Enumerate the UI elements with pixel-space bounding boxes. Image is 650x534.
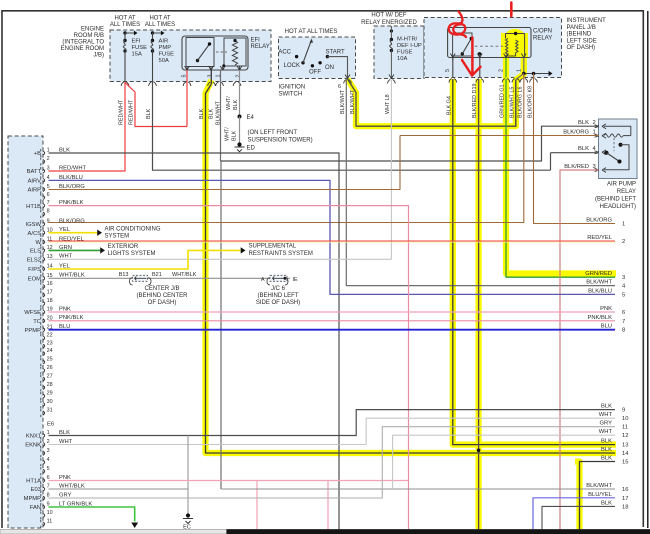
svg-text:YEL: YEL (59, 227, 71, 233)
svg-text:WHT: WHT (59, 439, 73, 445)
svg-text:11: 11 (47, 519, 53, 525)
svg-text:BLU/YEL: BLU/YEL (588, 492, 613, 498)
wire GRN/RED G1 down to terminal 3 (506, 79, 615, 277)
svg-text:ED: ED (247, 146, 256, 152)
arrow supplemental restraints (241, 247, 246, 253)
svg-text:30: 30 (47, 399, 53, 405)
engine room J/B box (110, 30, 271, 82)
svg-text:FUSE: FUSE (132, 45, 148, 51)
svg-text:SUPPLEMENTAL: SUPPLEMENTAL (249, 244, 297, 250)
wire HT1A PNK row (49, 480, 409, 482)
svg-text:C/OPN: C/OPN (533, 29, 552, 35)
svg-text:WHT/BLK: WHT/BLK (59, 483, 85, 489)
svg-text:GRN/RED G1: GRN/RED G1 (500, 84, 506, 118)
svg-text:7: 7 (47, 484, 50, 490)
M-HTR fuse box (374, 26, 424, 79)
wire RED/WHT to BATT (49, 82, 126, 171)
svg-text:IGSW: IGSW (26, 222, 42, 228)
svg-text:18: 18 (47, 298, 53, 304)
wire BLK/WHT ignition gray down (346, 79, 615, 286)
svg-text:BLK/ORG: BLK/ORG (59, 218, 85, 224)
wire BLK/ORG L6 down to IGSW row (49, 80, 524, 223)
wire BLK G4 down to terminal 13 (453, 79, 615, 445)
svg-text:12: 12 (622, 433, 628, 439)
svg-text:BLK/WHT: BLK/WHT (350, 89, 356, 114)
svg-text:BLK: BLK (231, 130, 237, 141)
svg-text:8: 8 (47, 493, 50, 499)
ECM connector pins with numbers and labels (43, 151, 45, 155)
svg-text:6: 6 (47, 475, 50, 481)
svg-text:BLK/WHT L5: BLK/WHT L5 (509, 87, 515, 118)
wire FAN LT GRN/BLK (49, 507, 135, 522)
svg-text:3: 3 (208, 75, 214, 78)
wire HT1A stub down 1 (256, 481, 258, 531)
fuse EFI 15A (123, 39, 126, 42)
C/OPN actuator dashed (475, 45, 503, 47)
svg-text:11: 11 (47, 237, 53, 243)
svg-text:ALL TIMES: ALL TIMES (110, 22, 140, 28)
svg-text:B21: B21 (152, 272, 162, 278)
wire A/CS YEL stub (49, 232, 98, 234)
svg-text:26: 26 (47, 365, 53, 371)
svg-text:10A: 10A (397, 56, 407, 62)
svg-text:RELAY: RELAY (251, 44, 270, 50)
svg-text:AIR PUMP: AIR PUMP (607, 182, 636, 188)
svg-text:WHT/BLK: WHT/BLK (172, 272, 197, 278)
EFI relay coil cell (224, 38, 246, 66)
wire F/PS YEL to SRS (49, 250, 241, 269)
EFI relay switch cell (186, 38, 214, 67)
svg-text:5: 5 (445, 69, 451, 72)
svg-text:KNX1: KNX1 (26, 434, 41, 440)
svg-text:AIRP: AIRP (27, 188, 41, 194)
svg-text:ACC: ACC (278, 50, 291, 56)
svg-text:OF DASH): OF DASH) (567, 45, 596, 51)
svg-text:6: 6 (338, 84, 341, 90)
svg-text:E4: E4 (247, 115, 255, 121)
wire M-HTR fuse bottom (390, 51, 392, 79)
svg-text:28: 28 (47, 382, 53, 388)
svg-text:31: 31 (47, 408, 53, 414)
svg-text:EXTERIOR: EXTERIOR (108, 244, 139, 250)
svg-text:2: 2 (236, 75, 242, 78)
wire W RED/YEL row (49, 241, 616, 243)
engine J/B bottom bumps (121, 82, 129, 86)
svg-text:GRY: GRY (59, 492, 72, 498)
svg-text:GRY: GRY (600, 421, 613, 427)
svg-text:PPMP: PPMP (25, 328, 42, 334)
svg-text:AIR: AIR (159, 39, 169, 45)
svg-text:BLK: BLK (578, 146, 589, 152)
svg-text:2: 2 (47, 439, 50, 445)
wire KNX1 ground branch (187, 436, 189, 515)
svg-text:1: 1 (622, 222, 625, 228)
wire BLK terminal 18 (542, 506, 615, 530)
air pump relay coil (604, 126, 631, 135)
svg-text:BLK: BLK (578, 120, 589, 126)
highlight: ignition START BLK/WHT to C/OPN coil to GRN/RED terminal 3 (348, 45, 524, 126)
svg-text:HOT W/ DEF: HOT W/ DEF (371, 13, 407, 19)
svg-text:24: 24 (47, 348, 53, 354)
svg-text:TC: TC (33, 319, 41, 325)
svg-text:SIDE OF DASH): SIDE OF DASH) (256, 300, 300, 306)
svg-text:16: 16 (47, 281, 53, 287)
wire WHT terminal 12 riser (393, 435, 615, 489)
svg-text:LT GRN/BLK: LT GRN/BLK (59, 501, 92, 507)
svg-text:EKNK: EKNK (25, 443, 41, 449)
svg-text:BLK/BLU: BLK/BLU (588, 288, 612, 294)
highlight: BLK/RED D19 down to bottom (476, 79, 482, 530)
svg-text:SWITCH: SWITCH (279, 92, 303, 98)
M-HTR pin arrow (389, 75, 394, 79)
svg-text:E03: E03 (31, 487, 41, 493)
svg-text:OFF: OFF (309, 70, 321, 76)
svg-text:B13: B13 (119, 272, 129, 278)
wire ELS2 WHT row (49, 258, 392, 260)
svg-text:WFSE: WFSE (24, 310, 41, 316)
wire +B BLK row (49, 153, 340, 530)
C/OPN relay box (448, 28, 531, 58)
svg-text:E6: E6 (47, 422, 54, 428)
svg-text:BLK: BLK (233, 99, 239, 110)
svg-text:3: 3 (622, 275, 625, 281)
svg-text:ELS2: ELS2 (27, 258, 41, 264)
svg-text:A/CS: A/CS (27, 231, 41, 237)
svg-text:8: 8 (47, 209, 50, 215)
svg-text:7: 7 (47, 200, 50, 206)
svg-text:SYSTEM: SYSTEM (105, 234, 130, 240)
svg-text:LEFT SIDE: LEFT SIDE (567, 38, 597, 44)
C/OPN relay switch cell (453, 33, 472, 56)
svg-text:10: 10 (47, 510, 53, 516)
wire WFSE PNK row (49, 311, 616, 313)
svg-text:RELAY: RELAY (617, 189, 636, 195)
svg-text:ON: ON (325, 65, 334, 71)
svg-text:2: 2 (47, 156, 50, 162)
wire MPMP GRY row to terminal 11 (49, 427, 616, 498)
svg-text:BLK/RED D19: BLK/RED D19 (472, 84, 478, 118)
svg-text:RESTRAINTS SYSTEM: RESTRAINTS SYSTEM (249, 251, 313, 257)
svg-text:18: 18 (622, 504, 628, 510)
fuse AIR PMP 50A (151, 39, 154, 42)
wire BLK/WHT L5 down to ignition row (515, 80, 517, 127)
wire BLK/WHT row to air pump relay (221, 126, 599, 161)
svg-text:LOCK: LOCK (284, 63, 300, 69)
svg-text:9: 9 (47, 219, 50, 225)
svg-text:BLK: BLK (199, 108, 205, 119)
svg-text:6: 6 (622, 310, 625, 316)
svg-text:BLK: BLK (601, 447, 612, 453)
EFI fuse feed dot+arrow (123, 31, 126, 34)
svg-text:29: 29 (47, 391, 53, 397)
svg-text:F/PS: F/PS (28, 267, 41, 273)
svg-text:+B: +B (34, 151, 41, 157)
svg-text:10: 10 (47, 227, 53, 233)
svg-text:J/C 6: J/C 6 (271, 286, 286, 292)
svg-text:IE: IE (293, 277, 299, 283)
C/OPN pin arrows (450, 54, 455, 58)
wire WHT/BLK relay pin2 to E4 (239, 70, 241, 117)
svg-text:BLK: BLK (59, 430, 70, 436)
svg-text:RED/YEL: RED/YEL (587, 235, 613, 241)
svg-text:M-HTR/: M-HTR/ (397, 37, 418, 43)
svg-text:MPMP: MPMP (24, 496, 42, 502)
wire L5 jog (516, 74, 524, 80)
svg-text:PMP: PMP (159, 45, 172, 51)
svg-text:BLK: BLK (209, 108, 215, 119)
wire BLU/YEL terminal 17 (533, 498, 615, 530)
C/OPN relay pin D19 contact (478, 52, 481, 55)
wire C/OPN pin D19 to J/B edge (479, 58, 481, 78)
junction D19 x row14 (477, 449, 481, 453)
svg-text:15A: 15A (132, 52, 142, 58)
svg-text:YEL: YEL (59, 263, 71, 269)
highlight: EFI relay pin3 BLK down + row to terminal 14 (206, 80, 617, 453)
svg-text:FUSE: FUSE (159, 52, 175, 58)
wire ELS GRN stub (49, 249, 101, 251)
svg-text:ENGINE: ENGINE (81, 27, 104, 33)
fuse M-HTR DEF I-UP 10A (390, 38, 393, 41)
svg-text:OF DASH): OF DASH) (148, 300, 177, 306)
M-HTR fuse feed dots (390, 29, 393, 32)
arrow air conditioning (97, 230, 102, 236)
wire BLK/RED air relay pin3 down (560, 170, 599, 530)
svg-text:14: 14 (622, 451, 629, 457)
svg-text:CENTER J/B: CENTER J/B (144, 286, 179, 292)
svg-text:13: 13 (47, 254, 53, 260)
svg-text:HT1A: HT1A (26, 479, 41, 485)
wire PPMP BLU row (49, 329, 616, 331)
svg-text:(INTEGRAL TO: (INTEGRAL TO (62, 40, 104, 46)
svg-text:9: 9 (622, 408, 625, 414)
junction wire right w/ arrow (524, 73, 549, 75)
wire WHT/BLK E4 to ED ground (239, 117, 241, 145)
svg-text:RED/WHT: RED/WHT (119, 99, 125, 125)
wire C/OPN pin5 to J/B edge (452, 58, 454, 78)
svg-text:PANEL J/B: PANEL J/B (567, 25, 596, 31)
svg-text:EFI: EFI (251, 38, 261, 44)
svg-text:EFI: EFI (132, 39, 141, 45)
node E4 (238, 115, 242, 119)
wire BLK/ORG air relay pin1 row (400, 135, 599, 137)
svg-text:BLU: BLU (601, 324, 612, 330)
svg-text:8: 8 (622, 328, 625, 334)
svg-text:SUSPENSION TOWER): SUSPENSION TOWER) (248, 138, 313, 144)
svg-text:5: 5 (47, 184, 50, 190)
svg-text:4: 4 (47, 457, 50, 463)
svg-text:19: 19 (47, 307, 53, 313)
C/OPN relay coil (506, 38, 508, 56)
wire AIR PMP fuse bottom (152, 51, 154, 82)
svg-text:PNK: PNK (600, 306, 612, 312)
svg-text:BLK/ORG: BLK/ORG (586, 218, 612, 224)
instrument panel J/B box (424, 18, 562, 78)
wire C/OPN pin5 down (452, 58, 454, 61)
svg-text:BLK: BLK (601, 404, 612, 410)
highlight: BLK riser to terminal 15 (575, 462, 580, 531)
svg-text:BLU: BLU (59, 324, 70, 330)
wire BLK/WHT ignition yellow path (348, 79, 516, 126)
wire TC PNK/BLK row (49, 320, 616, 322)
svg-text:HOT AT: HOT AT (114, 16, 135, 22)
red annotation circle scribble (449, 12, 466, 38)
svg-text:HOT AT: HOT AT (149, 16, 170, 22)
wire E03 WHT/BLK row to ground branch (49, 488, 189, 490)
EFI relay pin arrows (185, 66, 190, 70)
svg-text:1: 1 (593, 130, 596, 136)
svg-text:BLK/ORG: BLK/ORG (563, 130, 589, 136)
highlight: C/OPN pin5 BLK G4 down + row to terminal 13 (453, 79, 616, 445)
svg-text:DEF I-UP: DEF I-UP (397, 43, 422, 49)
bottom gray strip (0, 530, 650, 534)
svg-text:PNK/BLK: PNK/BLK (59, 200, 84, 206)
svg-text:PNK: PNK (59, 475, 71, 481)
svg-text:WHT L8: WHT L8 (385, 94, 391, 114)
svg-text:13: 13 (622, 443, 628, 449)
air pump relay switch (604, 152, 607, 154)
svg-text:ELS: ELS (30, 249, 41, 255)
wire AIR PMP fuse top (152, 33, 154, 41)
svg-text:1: 1 (47, 148, 50, 154)
svg-text:20: 20 (47, 315, 53, 321)
wire EKNK WHT row to terminal 10 (49, 418, 616, 444)
svg-text:BLK/WHT: BLK/WHT (340, 89, 346, 114)
air pump relay box (599, 119, 638, 179)
svg-text:15: 15 (622, 460, 628, 466)
svg-text:BLK/WHT: BLK/WHT (586, 280, 612, 286)
svg-text:BLK/BLU: BLK/BLU (59, 175, 83, 181)
EFI relay actuator dashed (216, 51, 227, 53)
svg-text:1: 1 (47, 430, 50, 436)
arrow exterior lights (100, 247, 105, 253)
svg-text:3: 3 (47, 166, 50, 172)
svg-text:ROOM R/B: ROOM R/B (74, 33, 104, 39)
svg-text:17: 17 (47, 290, 53, 296)
svg-text:RED/YEL: RED/YEL (59, 236, 85, 242)
instr J/B bottom bumps (449, 79, 457, 83)
wire L6 drop (523, 74, 525, 80)
AIR PMP fuse feed dot+arrow (151, 31, 154, 34)
air pump relay pin arrows (602, 124, 606, 129)
ignition switch box (279, 37, 356, 79)
wire C/OPN pin1 L5 junction (523, 58, 525, 74)
ignition switch output wire (327, 57, 347, 79)
wire KNX1 BLK row to terminal 9 (49, 410, 616, 436)
svg-text:27: 27 (47, 374, 53, 380)
ground ED (237, 142, 241, 146)
svg-text:GRN/RED: GRN/RED (585, 271, 612, 277)
wire EOM WHT/BLK row (49, 277, 291, 279)
svg-text:BLK: BLK (59, 147, 70, 153)
svg-text:7: 7 (622, 319, 625, 325)
svg-text:15: 15 (47, 273, 53, 279)
svg-text:2: 2 (593, 120, 596, 126)
wire BLK/RED D19 down (478, 79, 480, 530)
svg-text:16: 16 (622, 487, 628, 493)
wire BLK air pump fuse down (153, 82, 551, 170)
svg-text:BLK/RED: BLK/RED (564, 164, 589, 170)
svg-text:WHT: WHT (599, 429, 613, 435)
svg-text:21: 21 (47, 324, 53, 330)
svg-text:BLK/ORG L6: BLK/ORG L6 (518, 87, 524, 118)
svg-text:BLK/ORG K8: BLK/ORG K8 (527, 86, 533, 118)
svg-text:ENGINE ROOM: ENGINE ROOM (61, 46, 104, 52)
svg-text:RED/WHT: RED/WHT (129, 99, 135, 125)
wire EFI fuse bottom (124, 51, 126, 82)
svg-text:11: 11 (622, 425, 628, 431)
ground EC (186, 513, 190, 517)
wire AIRV BLK/BLU (49, 180, 616, 294)
wire AIRP BLK/ORG (49, 136, 401, 190)
svg-text:22: 22 (47, 333, 53, 339)
svg-text:BLK/WHT: BLK/WHT (215, 100, 221, 125)
wire BLK relay pin3 yellow path (206, 70, 616, 453)
svg-text:9: 9 (47, 502, 50, 508)
svg-text:14: 14 (47, 264, 53, 270)
wire WHT L8 down to ELS2 row (390, 80, 392, 260)
wire BLK air relay pin4 (551, 152, 599, 154)
wire HT1B PNK/BLK (49, 206, 409, 530)
svg-text:6: 6 (47, 192, 50, 198)
ignition switch arm (303, 41, 311, 63)
svg-text:WHT/: WHT/ (225, 127, 231, 141)
svg-text:17: 17 (622, 496, 628, 502)
svg-text:PNK/BLK: PNK/BLK (588, 315, 613, 321)
svg-text:HT1B: HT1B (26, 204, 41, 210)
svg-text:(BEHIND CENTER: (BEHIND CENTER (136, 293, 188, 299)
svg-text:3: 3 (593, 164, 596, 170)
svg-text:(BEHIND LEFT: (BEHIND LEFT (257, 293, 298, 299)
svg-text:10: 10 (622, 416, 628, 422)
svg-text:BATT: BATT (27, 169, 42, 175)
svg-text:START: START (326, 50, 345, 56)
svg-text:BLK/WHT: BLK/WHT (586, 483, 612, 489)
svg-text:2: 2 (622, 239, 625, 245)
svg-text:(ON LEFT FRONT: (ON LEFT FRONT (248, 130, 298, 136)
svg-text:AIRV: AIRV (28, 179, 42, 185)
svg-text:IGNITION: IGNITION (279, 85, 306, 91)
svg-text:AIR CONDITIONING: AIR CONDITIONING (105, 227, 161, 233)
svg-text:PNK/BLK: PNK/BLK (59, 315, 84, 321)
svg-text:WHT/BLK: WHT/BLK (59, 273, 85, 279)
svg-text:5: 5 (622, 292, 625, 298)
svg-text:5: 5 (47, 466, 50, 472)
svg-text:WHT: WHT (599, 412, 613, 418)
svg-text:4: 4 (47, 175, 50, 181)
svg-text:HEADLIGHT): HEADLIGHT) (600, 204, 636, 210)
svg-text:FAN: FAN (30, 505, 41, 511)
svg-text:50A: 50A (159, 58, 169, 64)
wire HT1A stub down 2 (327, 481, 329, 531)
wire RED/WHT relay pin5 down (186, 70, 188, 127)
svg-text:LIGHTS SYSTEM: LIGHTS SYSTEM (108, 251, 156, 257)
svg-text:BLK: BLK (601, 500, 612, 506)
svg-text:WHT: WHT (59, 254, 73, 260)
svg-text:BLK/ORG: BLK/ORG (59, 184, 85, 190)
svg-text:3: 3 (47, 448, 50, 454)
svg-text:RELAY: RELAY (533, 36, 552, 42)
wire BLK/WHT relay pin1 down (220, 70, 222, 161)
red annotation arrow down (471, 38, 474, 73)
svg-text:INSTRUMENT: INSTRUMENT (567, 18, 607, 24)
red annotation vertical line top (510, 3, 513, 17)
wire BLK row to terminal 15 (580, 462, 616, 531)
svg-text:BLK G4: BLK G4 (446, 96, 452, 115)
svg-text:ALL TIMES: ALL TIMES (145, 22, 175, 28)
svg-text:HOT AT ALL TIMES: HOT AT ALL TIMES (285, 29, 338, 35)
svg-text:A: A (261, 277, 265, 283)
svg-text:BLK: BLK (601, 439, 612, 445)
